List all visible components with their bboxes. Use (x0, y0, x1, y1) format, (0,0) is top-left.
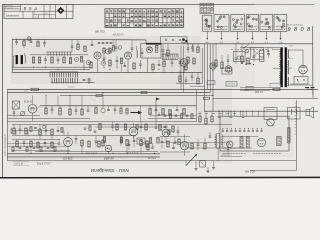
resistor R9b (112, 40, 114, 51)
capacitor C40 (95, 136, 98, 147)
wire gnd bus a (12, 66, 90, 68)
wire rail C (206, 44, 208, 90)
diamond logo (57, 7, 64, 14)
wire drop links (16, 131, 64, 140)
capacitor C34 (45, 125, 48, 136)
junction dots b (187, 43, 236, 44)
svg-text:Eng.B CT KT: Eng.B CT KT (37, 163, 51, 165)
ferrite rod bar right (21, 55, 23, 64)
wire corner link (190, 85, 205, 87)
svg-text:6M 202: 6M 202 (245, 170, 255, 174)
resistor R62 (98, 141, 100, 147)
cap trimmer group (98, 43, 113, 44)
resistor R29 (81, 106, 83, 115)
title sub-table text (34, 13, 53, 19)
right rail link (312, 89, 314, 98)
capacitor C10b (124, 62, 127, 67)
resistor R10 (109, 48, 111, 53)
resistor R50 (204, 138, 206, 149)
terminal dashes (305, 88, 315, 90)
resistor R72 (12, 147, 14, 152)
capacitor C16 (192, 44, 195, 51)
volume pot box (137, 138, 145, 144)
resistor R18 (187, 57, 189, 63)
resistor R66 (273, 88, 281, 90)
resistor R46 (140, 140, 142, 146)
tiny text row mains (231, 49, 267, 51)
wire mid bus 3 (60, 94, 213, 96)
resistor R17 (197, 44, 199, 53)
resistor R30 (149, 106, 151, 115)
resistor R42 (81, 140, 83, 146)
resistor R45 (126, 140, 128, 146)
svg-text:9 8 0 8: 9 8 0 8 (288, 27, 312, 33)
module internal wire b (222, 147, 252, 149)
capacitor C36 (23, 140, 26, 148)
capacitor C29 (155, 106, 158, 114)
transformer heater winding 1 (288, 60, 289, 67)
wire seg m3 (160, 136, 190, 138)
capacitor C25 electrolytic (242, 111, 245, 118)
capacitor C21 (267, 51, 270, 58)
resistor R77 (136, 125, 138, 130)
wire seg m8 (7, 145, 70, 147)
capacitor C19 (235, 44, 238, 64)
tube V6 mixer (28, 105, 37, 114)
resistor R19 (193, 58, 195, 64)
resistor R40 (37, 142, 39, 148)
resistor R74 (40, 147, 42, 152)
capacitor C54 (128, 140, 131, 150)
coil L1b (74, 57, 78, 61)
resistor R9 (103, 48, 105, 53)
resistor R33 (183, 109, 185, 115)
drawing number 9808 (288, 27, 312, 33)
capacitor C37 (44, 140, 47, 149)
mid drop e (103, 92, 104, 106)
wire top bus left (12, 38, 146, 41)
transformer core bar left (281, 48, 283, 88)
heater pin arrows (206, 32, 281, 40)
capacitor C20 (253, 48, 256, 62)
resistor R12 (109, 60, 111, 66)
dial scale ticks (295, 103, 297, 134)
tube label EM183 (63, 157, 73, 161)
oscillator shield box (141, 44, 161, 58)
svg-text:AB ZD FC: AB ZD FC (112, 34, 125, 37)
resistor R35 (25, 128, 27, 134)
transformer heater winding 2 (288, 68, 289, 75)
capacitor C3 (43, 39, 46, 47)
capacitor C20b (179, 58, 182, 67)
resistor R3 (32, 57, 34, 63)
tube V7 ECH81 (64, 132, 73, 153)
resistor R27 (59, 106, 62, 115)
label 6M 23 (255, 90, 263, 94)
wire rail A (201, 48, 203, 84)
resistor R41 (51, 142, 53, 148)
label Tonblende (220, 155, 242, 157)
tube V5 rectifier (299, 65, 308, 74)
resistor R55 (116, 124, 118, 130)
capacitor C1 (15, 39, 18, 45)
coil L3 (11, 128, 12, 134)
tube V12 (257, 138, 265, 146)
capacitor C23 electrolytic (218, 111, 221, 118)
capacitor C18 (227, 54, 230, 66)
wire bottom bus 2 (7, 156, 160, 158)
wire lower link (7, 115, 40, 117)
tube V2 oscillator (124, 52, 131, 59)
osc coil L2 (137, 46, 138, 58)
tube V4 (180, 59, 188, 67)
wire step at shield (145, 40, 147, 44)
resistor R52b (288, 128, 291, 144)
wire rail D (209, 44, 211, 93)
mid drop a (46, 95, 47, 106)
switch comb upper (50, 72, 78, 78)
wire lower h3 (12, 124, 232, 126)
capacitor C50 (111, 122, 114, 132)
resistor R47 (146, 141, 148, 147)
wire lower h1 (7, 118, 90, 120)
speaker arrow (186, 154, 197, 166)
resistor R14 (167, 44, 169, 56)
svg-text:NSU-Standgerät: NSU-Standgerät (3, 134, 7, 156)
wire bottom right corner (250, 100, 296, 170)
capacitor C27 (75, 106, 78, 115)
svg-text:6B T03: 6B T03 (95, 29, 105, 33)
resistor R52 (246, 137, 249, 149)
ferrite rod bar left (16, 55, 18, 64)
capacitor C51 (140, 122, 143, 133)
ground sym 2 (206, 171, 209, 173)
trimmer C2 (30, 38, 33, 42)
resistor R65 (178, 139, 180, 145)
wire drop x196 (195, 89, 197, 122)
tube socket diagram EL84 (274, 15, 287, 32)
resistor R1 (23, 39, 25, 48)
phono jack box (13, 101, 20, 109)
title small text rows (5, 4, 14, 9)
tuning arrow (131, 106, 143, 122)
resistor R48 (167, 141, 169, 147)
note line above digits (287, 23, 304, 26)
svg-text:250V: 250V (289, 46, 294, 48)
wire top bus right (187, 43, 313, 45)
heater line 2 (183, 46, 185, 93)
tube V1c small (106, 49, 111, 54)
svg-text:EBF 89: EBF 89 (104, 157, 114, 161)
capacitor C52 (155, 122, 158, 129)
test point flag (156, 98, 160, 123)
coil circle L5 (101, 106, 105, 113)
resistor R25 (96, 94, 102, 96)
wire seg m9 (12, 150, 70, 152)
capacitor C33 (19, 125, 22, 135)
capacitor C55 (151, 143, 154, 148)
resistor R58 (145, 124, 147, 130)
ground sym 1 (194, 169, 197, 171)
wire seg m10 (7, 143, 58, 145)
tube V10 EL84 (180, 134, 188, 156)
transformer secondary HV winding (288, 50, 289, 59)
wire seg m1 (12, 136, 135, 140)
resistor R30b (120, 106, 122, 114)
wire antenna link (14, 56, 16, 67)
tube V9 EABC80 (162, 124, 170, 142)
wire coil top link (30, 54, 88, 56)
resistor R16b (163, 61, 165, 72)
IF coil horizontal (163, 54, 179, 60)
resistor R34 (13, 125, 15, 135)
resistor R24 (141, 91, 148, 93)
tube V3 in shield (147, 47, 153, 53)
capacitor C72 (33, 148, 36, 149)
capacitor C21c (267, 47, 270, 51)
wire mid bus 2 (7, 91, 210, 93)
resistor R5 (51, 57, 53, 63)
capacitor C8b (131, 40, 134, 52)
svg-text:5 5 a: 5 5 a (24, 6, 38, 11)
capacitor C53 (177, 126, 180, 136)
wire v-drops lower (31, 146, 141, 154)
capacitor C6 (71, 40, 74, 53)
resistor R13 (155, 45, 158, 52)
capacitor C70 (34, 128, 37, 129)
resistor R71 (61, 128, 63, 133)
resistor R56 (120, 137, 122, 143)
capacitor C42 (133, 135, 136, 147)
voltage label 6-3V (289, 46, 294, 48)
label 5-6 (68, 87, 75, 89)
tuning gang C31 (20, 111, 25, 116)
capacitor C20d (185, 76, 188, 85)
resistor R15 (133, 63, 135, 69)
title block table (4, 4, 73, 18)
capacitor C7 (91, 40, 94, 46)
capacitor C56 (172, 143, 175, 149)
dash note a (86, 152, 97, 154)
mains terminal blobs (241, 62, 254, 65)
resistor R36 (39, 125, 41, 136)
wire det bus (176, 83, 202, 85)
resistor R39 (30, 141, 32, 147)
resistor R11 (90, 62, 92, 68)
wire mains top (240, 47, 281, 49)
svg-text:6M 23: 6M 23 (255, 90, 263, 94)
junction dots row (33, 67, 65, 73)
svg-text:6U 462: 6U 462 (63, 157, 73, 161)
resistor R24b (31, 88, 40, 90)
fuse box (246, 86, 253, 89)
resistor R67 (199, 111, 201, 122)
module internal wire a (222, 136, 258, 138)
label 12-5 (24, 91, 29, 93)
capacitor C14 (158, 60, 161, 66)
capacitor C41 (120, 135, 123, 146)
coil circle L6 (118, 46, 122, 50)
terminal label box (226, 82, 237, 87)
capacitor C24 electrolytic (230, 111, 233, 118)
mid drop c (70, 95, 71, 106)
wire gnd bus b (12, 68, 90, 70)
resistor R23b (185, 64, 187, 70)
mid drop d (81, 95, 83, 105)
scan bottom dark edge (0, 176, 320, 178)
resistor R23d (197, 72, 199, 84)
tube V4c (225, 66, 231, 72)
margin vertical text (3, 134, 7, 156)
resistor R38 (16, 140, 18, 148)
resistor R61 (172, 126, 174, 132)
label Eng BCT (37, 163, 51, 165)
shield box outline (161, 37, 188, 44)
resistor R37 (51, 129, 53, 135)
resistor R76 (89, 126, 91, 131)
choke with core (181, 38, 188, 44)
capacitor C43 (161, 136, 164, 148)
magic eye circle (267, 119, 275, 127)
tube V1b small (86, 60, 91, 65)
wire rail B (204, 44, 206, 111)
tube socket diagram ant (203, 15, 212, 31)
tube label EL84 (245, 170, 255, 174)
resistor R8 (84, 46, 86, 52)
wire seg m7 (12, 130, 50, 132)
tube V8 EF89 (129, 123, 138, 139)
label AB ZD FC (112, 34, 125, 37)
tube V4b (210, 63, 216, 73)
capacitor C28 (87, 106, 90, 111)
tube V8b small (105, 145, 112, 153)
svg-text:Jordanland: Jordanland (6, 13, 20, 17)
capacitor C12 (162, 44, 165, 55)
wire bottom bus 1 (7, 153, 160, 155)
capacitor C8 (115, 40, 118, 52)
svg-text:Mit den ab Werk gem.: Mit den ab Werk gem. (287, 23, 304, 26)
revision table entries (106, 10, 183, 25)
label 6-3V heater (289, 58, 293, 60)
capacitor C75 (94, 131, 97, 132)
svg-text:M 413: M 413 (148, 156, 156, 160)
connector grid table (200, 3, 214, 13)
junction dots c (83, 67, 117, 73)
capacitor C73 (47, 148, 50, 149)
small box det (222, 68, 232, 74)
svg-text:U·K·L·M: U·K·L·M (14, 163, 23, 165)
primary stub upper (272, 48, 279, 50)
resistor R21 (221, 55, 223, 69)
wire mid bus 4 (213, 97, 318, 99)
resistor R53 (99, 124, 101, 130)
capacitor C28c (114, 106, 117, 114)
heater line 1 (180, 46, 182, 90)
capacitor C15b (191, 44, 194, 48)
resistor R78 (168, 130, 170, 135)
svg-text:5,6 ±0,5: 5,6 ±0,5 (68, 87, 75, 89)
wire bottom bus 3 (7, 160, 296, 162)
heater pin labels (206, 41, 283, 44)
antenna coil winding (24, 53, 27, 63)
title text 55a (24, 6, 38, 11)
coil circle L4 (42, 125, 45, 128)
comb side parts (80, 79, 93, 84)
wire seg m6 (160, 151, 190, 153)
resistor R57 (124, 124, 126, 130)
label 6B T03 (95, 29, 105, 33)
thick shield bottom wire (146, 43, 162, 45)
resistor R20 (215, 44, 217, 67)
wire left edge vertical (11, 39, 13, 72)
resistor R43 (88, 141, 90, 147)
resistor R70 (30, 127, 32, 132)
wire IF drops (183, 66, 184, 73)
capacitor C74 (84, 128, 87, 129)
comb base line (51, 82, 95, 84)
NTC resistor box (260, 51, 265, 62)
tube V11 (227, 141, 233, 147)
resistor R28 (69, 106, 71, 115)
grid cap C39 (75, 135, 78, 144)
capacitor C32 (13, 109, 16, 117)
paper background (0, 0, 320, 186)
resistor R59 (149, 138, 151, 144)
resistor R7 (77, 40, 79, 50)
border frame left line (1, 4, 3, 177)
resistor R26 (45, 106, 47, 114)
transformer tertiary winding (279, 71, 280, 84)
resistor R32 (169, 110, 171, 116)
capacitor C38 (58, 140, 61, 145)
bus drop dots row (222, 111, 259, 116)
mid drop b (57, 95, 59, 105)
resistor R69 (211, 111, 213, 122)
transformer primary winding lower (279, 60, 280, 69)
wire seg m4 (160, 142, 230, 144)
wire v6 links (33, 95, 41, 121)
resistor R73 (26, 147, 28, 152)
transformer core bar right (285, 48, 287, 88)
resistor R54 (103, 137, 105, 143)
capacitor C4 (44, 56, 47, 64)
capacitor C44 (174, 137, 177, 143)
svg-text:NSU - Standgerät: NSU - Standgerät (90, 167, 129, 173)
svg-text:ECH 81: ECH 81 (24, 101, 33, 104)
wire mid bus 1 (7, 88, 318, 90)
capacitor C15 (187, 44, 190, 53)
lamp circle (245, 49, 249, 53)
resistor R6b (69, 58, 71, 64)
output trans box (288, 108, 301, 120)
wire sec top (288, 50, 303, 65)
tube V1d small (101, 61, 106, 66)
revision table grid (105, 9, 184, 28)
tube socket diagram EABC80 (260, 15, 273, 32)
capacitor C45 (197, 139, 200, 150)
capacitor C71 (19, 148, 22, 149)
wire main bus mid (12, 71, 202, 73)
resistor R6 (63, 57, 65, 63)
voltage label 220V (244, 90, 251, 92)
resistor R60 (159, 125, 161, 131)
capacitor C30 (176, 106, 179, 111)
terminal label box 2 (207, 81, 215, 85)
handwritten NSU Standgeraet flipped (90, 167, 129, 173)
paper lower margin (0, 179, 320, 186)
junction mid dots (204, 89, 214, 96)
wire rail E (212, 44, 214, 111)
